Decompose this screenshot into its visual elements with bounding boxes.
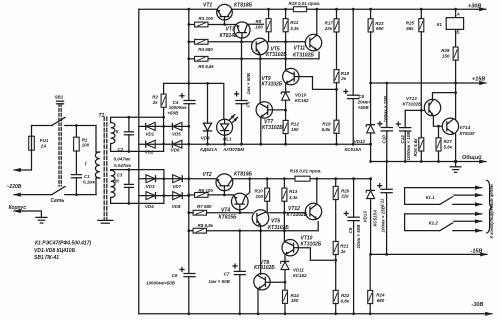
svg-text:КТ3102Б: КТ3102Б [266,52,287,58]
resistor R11 [285,9,287,19]
zener VD12 [370,83,372,124]
svg-text:С5: С5 [246,101,251,107]
relay contact K1.1 [405,187,482,189]
winding I [95,126,97,153]
svg-text:VT13: VT13 [406,96,417,101]
svg-text:КТ3102Б: КТ3102Б [262,125,283,131]
svg-text:VD1: VD1 [145,131,154,136]
diode VD6 [172,140,182,148]
svg-text:R14: R14 [291,293,300,298]
svg-text:С9: С9 [348,227,353,233]
svg-text:КТ819Б: КТ819Б [234,172,253,178]
capacitor C7 [239,233,241,271]
svg-text:150: 150 [291,127,299,132]
wire VT10 base zigzag [298,248,335,261]
wire VT13 base line [405,109,424,111]
svg-text:10000мк: 10000мк [169,105,188,110]
svg-text:SB1: SB1 [55,95,64,100]
wire top return line [139,143,371,145]
resistor R28 [455,29,457,46]
wire VT14 emitter [455,134,457,162]
resistor R25 [420,9,422,19]
svg-text:VD4: VD4 [145,204,154,209]
svg-text:АЛ307БМ: АЛ307БМ [222,147,244,152]
resistor R21 [335,199,337,241]
wire VT13 emitter to VT14 base [433,116,442,127]
capacitor C11 [386,162,388,190]
svg-text:A: A [456,12,460,17]
capacitor C8 [352,9,354,95]
svg-text:×50В: ×50В [167,111,179,116]
svg-text:С1: С1 [84,174,90,179]
capacitor C10 [386,83,388,127]
svg-text:С8: С8 [358,94,364,99]
svg-text:1мк × 50В: 1мк × 50В [208,279,230,284]
svg-text:2к: 2к [152,100,159,105]
svg-text:К коммутируемым цепям: К коммутируемым цепям [489,183,494,238]
wire +30V top rail [139,8,217,10]
relay contact K1.2 [405,213,482,215]
wire raw supply bus [188,9,190,100]
svg-text:К1.1: К1.1 [426,195,436,200]
svg-text:КС515А: КС515А [345,147,362,152]
svg-text:R8 6,8к: R8 6,8к [198,223,214,228]
svg-text:R5 6,8к: R5 6,8к [198,64,214,69]
resistor R26 [419,138,424,151]
svg-text:R7 680: R7 680 [197,204,212,209]
wire VT3 emitter column [241,38,243,61]
svg-text:-30В: -30В [472,302,484,308]
svg-text:VD6: VD6 [171,148,180,153]
svg-text:680: 680 [376,26,384,31]
wire left vertical bus [138,9,140,314]
wire R6 line [189,194,195,196]
svg-text:I: I [85,162,87,168]
svg-text:VD7: VD7 [172,184,181,189]
winding III [111,170,115,197]
diode VD5 [172,122,182,130]
svg-text:VT2: VT2 [203,172,212,178]
svg-text:1мк × 50В: 1мк × 50В [246,72,251,94]
svg-text:R16 0,01 пров.: R16 0,01 пров. [290,168,322,173]
svg-text:VT6: VT6 [271,218,280,224]
wire rectifier AC column bottom [163,170,165,204]
winding II [111,123,115,144]
capacitor C2 [128,117,130,131]
wire -15V rail [370,253,487,255]
diode VD4 [146,192,156,200]
svg-text:КТ815Г: КТ815Г [460,131,476,136]
wire VT14 collector [455,83,457,119]
diode VD1 [146,122,156,130]
svg-text:VT11: VT11 [294,45,306,51]
brace switched circuits [486,180,492,233]
wire fuse to switch [32,125,53,127]
svg-text:VD13: VD13 [362,211,367,223]
wire VT7 emitter [260,117,262,144]
svg-text:С12: С12 [400,135,405,144]
svg-text:0,1мк: 0,1мк [83,180,96,185]
wire -30V bottom rail [139,313,492,315]
resistor R16 [295,176,310,181]
wire common rail [371,161,486,163]
svg-text:3,3к: 3,3к [289,195,298,200]
resistor R23 [370,9,372,19]
svg-text:VT3: VT3 [226,27,235,33]
ground common [455,162,457,167]
transistor VT12 [305,203,321,219]
svg-text:Сеть: Сеть [51,198,65,204]
wire +15V rail [371,82,486,84]
transistor VT14 [442,118,458,134]
resistor R22 [335,254,337,290]
svg-text:КД521А: КД521А [200,147,217,152]
svg-text:С7: С7 [224,271,230,276]
svg-text:К1: К1 [437,22,443,27]
svg-text:Б: Б [456,29,460,34]
svg-text:100: 100 [255,25,263,30]
svg-text:×50В: ×50В [358,105,370,110]
wire VT12 collector [316,179,318,204]
svg-text:2к: 2к [340,249,347,254]
svg-text:680: 680 [377,298,385,303]
wire R3 line [189,24,195,26]
svg-text:68к: 68к [406,26,414,31]
capacitor C3 [128,170,130,185]
svg-text:R15 0,01 пров.: R15 0,01 пров. [289,1,321,6]
svg-text:КС162: КС162 [293,273,307,278]
transistor VT9 [283,68,299,84]
wire VT13 collector [433,93,456,100]
svg-text:R12: R12 [291,122,300,127]
svg-text:КС162: КС162 [295,98,309,103]
wire bottom channel line [139,178,216,180]
ground transformer screen [98,219,113,221]
wire VT5 emitter to VT7 collector [259,55,261,103]
resistor R3 [195,22,208,27]
transistor VT10 [282,240,298,256]
svg-text:22к: 22к [324,26,333,31]
svg-text:100мк × 25В: 100мк × 25В [380,205,385,232]
svg-text:VD1-VD8 КЦ410Б: VD1-VD8 КЦ410Б [34,248,76,254]
svg-text:С3: С3 [117,173,123,178]
wire raw plus link [164,83,224,119]
wire R5 line [189,58,195,60]
svg-text:22к: 22к [340,194,349,199]
wire VT11 collector [316,9,318,35]
svg-text:R3 100: R3 100 [199,16,214,21]
svg-text:VT1: VT1 [203,2,212,8]
resistor R10 [266,179,268,189]
svg-text:0,047мк: 0,047мк [114,156,132,161]
resistor R7 [193,210,206,215]
svg-text:VT14: VT14 [460,125,471,130]
svg-text:VD11: VD11 [293,267,304,272]
resistor R13 [283,179,285,189]
resistor R27 [438,126,440,138]
svg-text:R13: R13 [289,189,298,194]
resistor R6 [195,193,208,198]
wire chassis with arrow [14,211,41,217]
ground chassis [36,216,47,218]
svg-text:КТ814Б: КТ814Б [220,33,239,39]
resistor R5 [195,56,208,61]
svg-text:SB1 ПК-41: SB1 ПК-41 [34,255,59,261]
svg-text:VD2: VD2 [145,149,154,154]
svg-text:HL1: HL1 [223,136,232,141]
resistor R24 [369,254,371,290]
svg-text:К1.2: К1.2 [429,220,439,225]
transistor VT11 [305,34,321,50]
wire rectifier AC column top [163,107,165,151]
svg-text:R4 680: R4 680 [198,47,213,52]
svg-text:К1 РЭС47(РФ4.500.417): К1 РЭС47(РФ4.500.417) [35,241,91,247]
zener VD11 [284,254,286,261]
svg-text:R22: R22 [341,293,350,298]
svg-text:II: II [116,129,119,134]
wire mains line 2 with arrow [14,194,52,196]
wire mains line 1 with arrow [14,126,32,171]
capacitor C6 [184,273,195,275]
svg-text:R10: R10 [255,189,264,194]
svg-text:VD10: VD10 [295,92,307,97]
svg-text:VD8: VD8 [172,204,181,209]
zener VD13 [370,179,372,190]
svg-text:6,8к: 6,8к [341,299,350,304]
wire bottom bridge row2 [139,195,189,197]
transistor VT4 [232,193,249,210]
diode VD9 [207,83,209,123]
resistor R1 [75,126,77,138]
wire VT9 base zigzag [299,77,337,90]
transistor VT13 [424,99,440,115]
transistor VT7 [256,102,272,118]
svg-text:FU1: FU1 [40,138,49,143]
svg-text:R26 5,6к: R26 5,6к [413,138,418,157]
wire switch out 1 [65,125,96,127]
svg-text:КТ818Б: КТ818Б [234,2,253,8]
capacitor C1 [75,151,77,174]
wire R7 line [189,212,193,214]
svg-text:КТ3102Б: КТ3102Б [254,265,275,271]
svg-text:20мк×: 20мк× [357,99,372,104]
svg-text:КТ3102Б: КТ3102Б [262,81,283,87]
diode VD8 [173,192,183,200]
svg-text:КТ3102Б: КТ3102Б [287,212,308,218]
svg-text:Корпус: Корпус [9,205,27,211]
svg-text:R25: R25 [406,21,415,26]
svg-text:3,3к: 3,3к [290,26,299,31]
resistor R20 [335,179,337,187]
resistor R18 [336,32,338,70]
svg-text:VD5: VD5 [172,131,181,136]
svg-text:0,047мк: 0,047мк [114,163,132,168]
svg-text:150: 150 [442,53,450,58]
wire R4 line [189,41,195,43]
transistor VT1 [217,4,233,20]
transistor VT2 [216,174,233,191]
svg-text:2к: 2к [340,76,347,81]
transistor VT3 [234,22,250,38]
svg-text:VD9: VD9 [201,136,210,141]
svg-text:R6 100: R6 100 [198,188,213,193]
svg-text:КТ3102Б: КТ3102Б [301,241,322,247]
svg-text:С10: С10 [381,135,386,144]
resistor R12 [283,120,288,133]
svg-text:~220В: ~220В [7,184,22,190]
svg-text:100: 100 [256,194,264,199]
svg-text:КТ3102Б: КТ3102Б [268,225,289,231]
resistor R4 [195,39,208,44]
svg-text:КТ3102Б: КТ3102Б [403,101,423,106]
resistor R14 [283,290,288,303]
resistor R8 [193,228,206,233]
fuse FU1 [29,136,35,150]
wire top bridge row1 [139,125,189,127]
wire VT6 emitter to VT8 collector [260,226,262,274]
resistor R9 [268,9,270,19]
capacitor C5 [241,61,243,100]
svg-text:1000мк × 10В: 1000мк × 10В [406,131,411,161]
svg-text:R27: R27 [444,139,453,144]
svg-text:VD3: VD3 [146,184,155,189]
svg-text:10000мк×50В: 10000мк×50В [146,280,176,285]
svg-text:R23: R23 [375,21,384,26]
wire R8 line [189,230,193,232]
svg-text:КС515А: КС515А [373,210,378,227]
svg-text:VD12: VD12 [354,139,366,144]
svg-text:С2: С2 [118,147,124,152]
transistor VT8 [254,274,270,290]
transistor VT5 [251,38,268,55]
svg-text:6,8к: 6,8к [322,127,331,132]
diode VD3 [146,175,156,183]
svg-text:+15В: +15В [472,77,485,83]
svg-text:R9: R9 [256,19,262,24]
svg-text:150: 150 [291,298,299,303]
svg-text:10мк × 50В: 10мк × 50В [356,224,361,249]
svg-text:КТ815Б: КТ815Б [219,215,238,221]
svg-text:100: 100 [82,143,90,148]
svg-text:С11: С11 [380,198,385,206]
zener VD10 [285,83,287,91]
svg-text:100мк × 25В: 100мк × 25В [383,95,388,122]
resistor R2 [163,83,165,94]
svg-text:С6: С6 [172,273,178,278]
capacitor C12 [404,110,406,127]
wire switch out 2 [65,194,96,196]
svg-text:R11: R11 [290,20,298,25]
relay coil K1 [455,9,457,17]
svg-text:2А: 2А [40,143,47,148]
diode VD2 [146,140,156,148]
resistor R15 [293,7,306,12]
transistor VT6 [252,210,269,227]
svg-text:R19: R19 [322,122,331,127]
svg-text:5,6к: 5,6к [444,145,453,150]
svg-text:-15В: -15В [471,249,483,255]
svg-text:КТ3102Б: КТ3102Б [293,53,314,59]
LED HL1 [217,119,233,135]
capacitor C4 [184,100,195,102]
svg-text:+30В: +30В [468,3,481,9]
capacitor C9 [353,179,355,217]
wire VT8 emitter [257,289,259,314]
svg-text:III: III [115,178,120,183]
resistor R19 [336,83,338,121]
diode VD7 [173,175,183,183]
resistor R17 [336,9,338,19]
svg-text:Общий: Общий [462,154,482,161]
